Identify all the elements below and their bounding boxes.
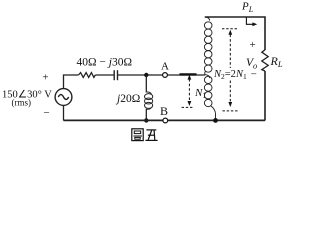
wire: RL bottom lead down to rail: [264, 71, 266, 121]
svg-text:40Ω − j30Ω: 40Ω − j30Ω: [77, 56, 133, 68]
svg-text:(rms): (rms): [12, 97, 32, 107]
wire: capacitor to transformer tap through node A: [118, 74, 206, 76]
dashed terminator under N1 arrow: [182, 106, 194, 108]
voltage source VS 150∠30° V: [55, 89, 72, 106]
node A (open terminal): [163, 73, 168, 78]
autotransformer upper winding (N2 top section): [204, 17, 212, 74]
svg-text:+: +: [249, 39, 255, 51]
junction dot at j20Ω branch bottom: [144, 118, 148, 122]
dashed arrow N1 winding span: [188, 79, 190, 102]
wire: j20Ω branch upper lead: [145, 75, 147, 93]
wire: bottom rail: [64, 119, 266, 121]
svg-text:−: −: [43, 107, 49, 119]
dashed arrow N2 winding span: [229, 35, 231, 102]
junction dot at transformer bottom on rail: [213, 118, 218, 123]
wire: thick segment between node A and winding tap: [180, 73, 197, 75]
svg-text:N2=2N1: N2=2N1: [213, 69, 247, 81]
wire: resistor to capacitor: [95, 74, 114, 76]
power arrow PL into load: [246, 17, 253, 24]
svg-text:−: −: [251, 69, 257, 81]
node B (open terminal): [163, 118, 168, 123]
caption 圖五 (Figure 5) drawn as strokes: 圖: [132, 129, 143, 141]
label N2=2N1: [214, 68, 247, 80]
svg-text:+: +: [42, 72, 48, 84]
capacitor -j30Ω (two plates): [114, 70, 117, 80]
resistor RL (vertical zigzag): [262, 50, 268, 71]
autotransformer lower winding (N1 section): [204, 75, 215, 121]
resistor 40Ω (series zigzag): [79, 73, 96, 78]
wire: secondary top rail: [205, 17, 265, 50]
svg-text:j20Ω: j20Ω: [115, 93, 140, 105]
dashed terminator above N2 arrow: [222, 29, 239, 111]
caption 圖五 (Figure 5) drawn as strokes: 五: [145, 130, 157, 141]
svg-text:B: B: [160, 104, 168, 118]
svg-text:A: A: [161, 60, 169, 72]
junction dot at j20Ω branch top: [144, 73, 148, 77]
wire: left loop top segment from source to resistor: [64, 75, 79, 89]
inductor j20Ω (3-loop coil): [145, 92, 153, 109]
wire: left loop bottom segment from source down to bottom rail: [63, 105, 65, 120]
wire: j20Ω branch lower lead: [145, 109, 147, 121]
